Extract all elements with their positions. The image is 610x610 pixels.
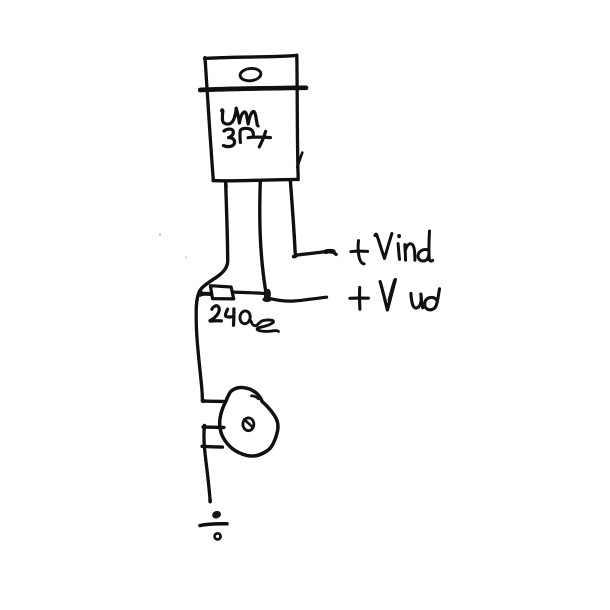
wire: R2 wiper/bottom terminals down to ground [204, 425, 212, 503]
wire: node B to +Vud terminal [271, 297, 327, 301]
faint scanner speck near wire [185, 256, 187, 258]
U1 mounting hole [240, 67, 262, 81]
U1 label text "LM" [222, 108, 258, 126]
label "+Vud" [350, 280, 440, 310]
U1 pin 1 (ADJ) left leg, curving into wire to node A [196, 181, 227, 307]
wire: IN pin corner to +Vind terminal stub [294, 251, 337, 256]
R2 bottom terminal stub [202, 445, 222, 449]
R2 shaft slot slash [244, 419, 252, 427]
label "+Vind" [351, 231, 433, 264]
ground symbol [200, 510, 227, 540]
potentiometer R2 body [220, 387, 278, 455]
U1 tab separator line [200, 88, 306, 90]
R2 top terminal stub [201, 399, 224, 403]
U1 right-edge pen spur [297, 153, 302, 168]
node A: junction of ADJ leg, resistor stub and wire down [198, 290, 212, 297]
resistor R1 240 ohm body [210, 286, 233, 299]
faint scanner speck left [159, 233, 162, 236]
R2 wiper terminal stub [201, 425, 224, 429]
label "240 ohm" value text [210, 306, 278, 332]
wire: R1 right terminal to node B [234, 292, 265, 293]
U1 pin 2 (OUT) middle leg [260, 181, 266, 293]
U1 label text "317" [223, 128, 270, 147]
wire: node A down to potentiometer top terminal [196, 308, 202, 401]
node B: junction blob of OUT leg and +Vud wire [262, 288, 271, 302]
U1 pin 3 (IN) right leg [290, 181, 295, 252]
R2 shaft slot circle [243, 418, 254, 431]
U1 bottom-left comma tick [225, 181, 226, 189]
regulator U1 LM317 package outline (TO-220 body) [205, 55, 299, 181]
